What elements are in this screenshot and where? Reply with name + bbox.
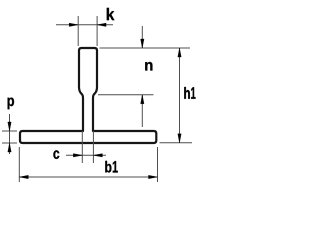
dimension k: dimension line <box>56 24 113 26</box>
dimension k: left arrow (points right) <box>69 23 78 26</box>
label 1 of b1 <box>113 161 118 172</box>
dimension n: upper arrow (points down) <box>141 39 144 48</box>
dimension p: upper arrow (points down) <box>8 122 11 131</box>
dimension p: vertical line <box>9 114 11 154</box>
dimension h1: bottom extension line (flange bottom level) <box>160 142 193 144</box>
dimension n: lower arrow (points up) <box>141 95 144 104</box>
dimension b1: extension lines <box>19 147 157 182</box>
label k <box>107 8 115 20</box>
dimension n: bottom extension line (taper level) <box>98 94 154 96</box>
dimension b1: dimension line <box>19 176 157 178</box>
label b of b1 <box>105 161 111 173</box>
dimension h1: top arrow (points up) <box>178 48 181 57</box>
dimension h1: dimension line <box>179 48 181 143</box>
dimension p: lower arrow (points up) <box>8 143 11 152</box>
dimension c: right arrow (points left) <box>93 154 102 157</box>
dimension b1: left arrow (points left) <box>19 175 28 178</box>
dimension k: extension lines <box>78 16 97 46</box>
label c <box>53 150 59 159</box>
label 1 of h1 <box>191 87 195 99</box>
T-profile outline <box>20 48 156 143</box>
dimension n: top extension line (stem top level) <box>100 47 191 49</box>
dimension b1: right arrow (points right) <box>149 175 158 178</box>
dimension c: left arrow (points right) <box>73 154 82 157</box>
dimension c: dimension line <box>66 154 106 156</box>
dimension h1: bottom arrow (points down) <box>178 134 181 143</box>
dimension k: right arrow (points left) <box>97 23 106 26</box>
dimension p: extension lines (flange top and bottom, left side) <box>2 131 17 143</box>
label p <box>8 98 14 110</box>
label n <box>145 62 152 71</box>
dimension c: extension lines through flange <box>82 131 93 163</box>
dimension n: upper tail line <box>141 26 143 48</box>
dimension n: lower tail line <box>141 95 143 127</box>
label h of h1 <box>184 87 190 99</box>
